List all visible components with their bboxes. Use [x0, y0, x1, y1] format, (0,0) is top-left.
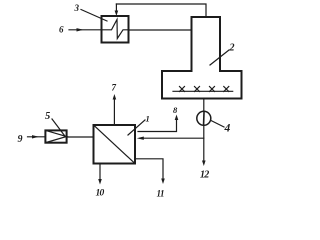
label 5	[45, 111, 50, 122]
label 8	[173, 105, 178, 115]
svg-text:10: 10	[96, 189, 105, 199]
grate x-mark 2	[195, 87, 200, 92]
wire top rail from heater 3 top to reactor 2 top	[116, 4, 206, 17]
label 4	[224, 123, 231, 135]
wire blower 4 down to outlet 12 with down arrow	[203, 125, 205, 161]
inlet wire 9 with arrow into nozzle 5	[28, 136, 46, 138]
wire nozzle 5 to scrubber 1	[67, 136, 94, 138]
label 1	[146, 114, 150, 124]
scrubber box 1	[94, 125, 136, 164]
svg-text:1: 1	[146, 114, 150, 124]
grate x-mark 1	[180, 87, 185, 92]
grate x-mark 4	[224, 87, 229, 92]
leader line for label 5	[52, 119, 65, 136]
label 10	[96, 189, 105, 199]
wire outlet 11 with down arrow	[135, 159, 163, 179]
svg-text:4: 4	[224, 123, 231, 135]
grate x-mark 3	[210, 87, 215, 92]
label 9	[18, 134, 23, 145]
svg-text:11: 11	[157, 189, 165, 199]
blower 4 inner vane	[203, 113, 205, 125]
svg-text:3: 3	[74, 3, 80, 13]
reactor 2 neck (chimney)	[192, 17, 221, 71]
svg-text:6: 6	[59, 25, 64, 35]
label 2	[229, 43, 235, 54]
wire heater 3 outlet to reactor 2	[129, 29, 192, 31]
wire branch 8 with up arrow	[138, 120, 177, 132]
reactor 2 base vessel	[162, 71, 242, 99]
wire drop into heater 3 with down arrow	[115, 4, 117, 11]
label 6	[59, 25, 64, 35]
scrubber 1 internal diagonal	[94, 125, 136, 164]
grate line inside reactor base	[173, 90, 233, 92]
heater box 3	[102, 16, 129, 43]
nozzle box 5	[45, 130, 66, 142]
svg-text:5: 5	[45, 111, 50, 122]
inlet wire 6 with arrow into heater 3	[69, 29, 102, 31]
label 7	[112, 83, 117, 93]
wire from blower line tee to scrubber 1 with left arrow	[140, 137, 204, 139]
label 3	[74, 3, 80, 13]
svg-text:9: 9	[18, 134, 23, 145]
wire outlet 10 with down arrow	[99, 164, 101, 181]
wire reactor base bottom to blower 4	[203, 99, 205, 112]
label 11	[157, 189, 165, 199]
leader line for label 4	[211, 121, 224, 128]
leader line for label 2	[210, 50, 229, 65]
svg-text:7: 7	[112, 83, 117, 93]
svg-text:2: 2	[229, 43, 235, 54]
heater 3 internal zigzag element	[102, 20, 129, 39]
blower circle 4	[197, 111, 211, 125]
svg-text:12: 12	[200, 170, 209, 181]
nozzle 5 internal cone	[45, 130, 66, 142]
leader line for label 1	[128, 120, 145, 135]
label 12	[200, 170, 209, 181]
leader line for label 3	[81, 10, 107, 22]
wire outlet 7 with up arrow	[113, 99, 115, 125]
